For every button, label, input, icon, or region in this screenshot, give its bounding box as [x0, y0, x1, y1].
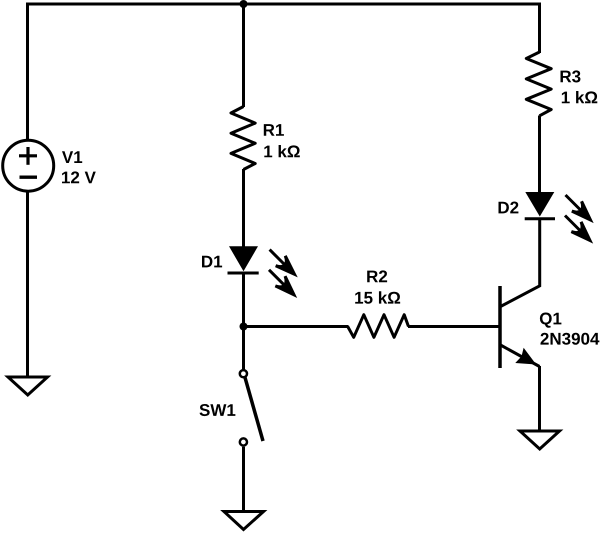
wire right rail	[538, 3, 541, 54]
voltage source V1	[3, 140, 54, 191]
transistor Q1	[500, 286, 540, 368]
label R1	[264, 124, 284, 136]
node junction dot	[240, 323, 248, 331]
LED D1	[228, 246, 300, 299]
label V1	[62, 151, 82, 163]
label 12 V	[62, 171, 96, 183]
resistor R3	[526, 52, 551, 116]
wire left rail lower	[26, 190, 29, 377]
wire SW1 to ground	[242, 447, 245, 512]
ground (below SW1)	[224, 512, 264, 530]
label 2N3904	[540, 333, 599, 345]
ground (left, below V1)	[8, 377, 48, 395]
label SW1	[199, 404, 235, 416]
wire R2 to Q1 base	[408, 325, 501, 328]
label R3	[560, 70, 580, 82]
resistor R2	[348, 315, 409, 338]
wire D2 to Q1 collector	[501, 219, 540, 307]
wire top rail	[26, 3, 541, 6]
wire D1 to node	[242, 275, 245, 329]
label 1 k&#937;	[562, 91, 598, 103]
wire node to SW1	[242, 327, 245, 370]
label D2	[498, 202, 518, 214]
resistor R1	[231, 107, 255, 170]
label R2	[367, 270, 387, 282]
wire center rail	[242, 3, 245, 108]
wire left rail upper	[26, 3, 29, 142]
node top junction	[240, 0, 248, 8]
wire Q1 emitter to ground	[538, 366, 541, 431]
LED D2	[525, 192, 596, 245]
label 1 k&#937;	[264, 145, 300, 157]
wire R1 to D1	[242, 169, 245, 248]
ground (below Q1)	[520, 431, 560, 449]
wire node to R2	[244, 325, 349, 328]
label 15 k&#937;	[355, 291, 400, 303]
label Q1	[540, 313, 562, 328]
label D1	[202, 256, 222, 268]
switch SW1	[240, 370, 263, 446]
wire R3 to D2	[538, 116, 541, 194]
